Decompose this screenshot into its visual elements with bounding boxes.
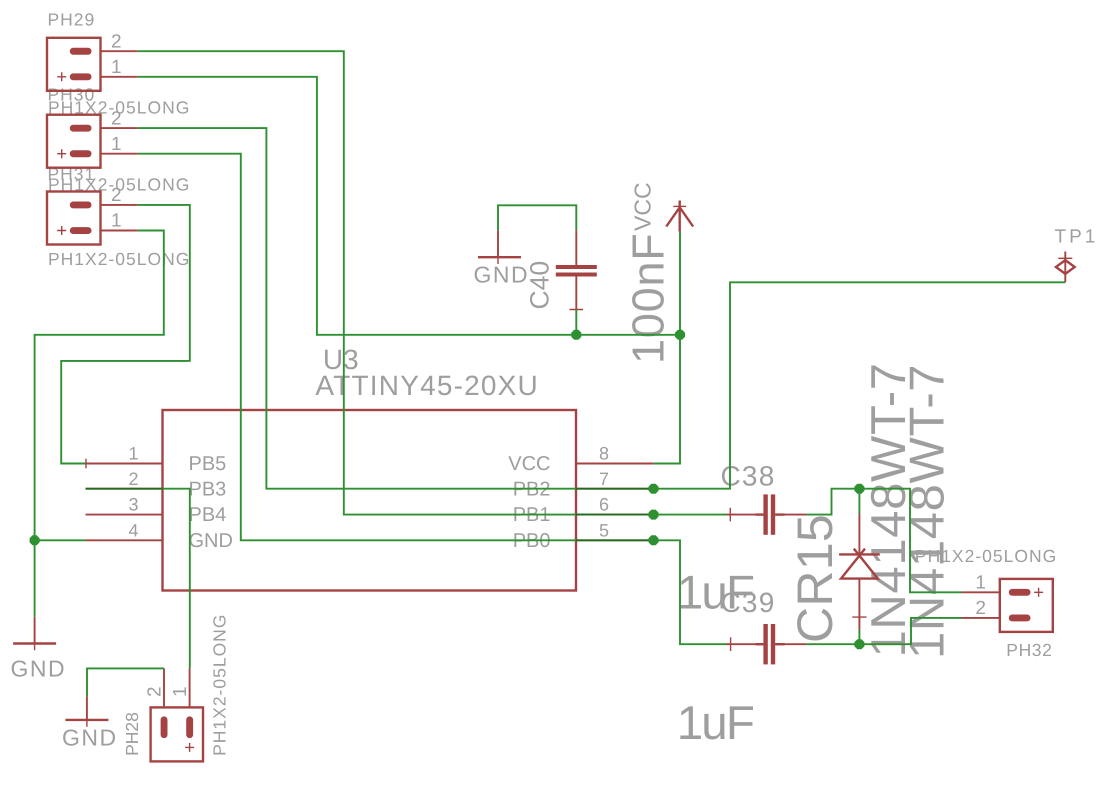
pin number 1 of PH30: [111, 134, 122, 155]
svg-text:C38: C38: [721, 460, 776, 491]
wire PB0 net to C39 left: [654, 540, 727, 644]
svg-text:1N4148WT-7: 1N4148WT-7: [901, 364, 955, 659]
capacitor C38: [724, 494, 807, 534]
svg-text:1: 1: [111, 211, 122, 232]
label PH28 vertical: [122, 712, 142, 756]
ground symbol GND near PH28: [65, 696, 108, 726]
junction dot U3 pin 7: [649, 484, 659, 494]
pin 7 stub of U3: [576, 488, 654, 490]
wire PB0 net from PH30 pin 1 down: [138, 154, 576, 541]
svg-text:GND: GND: [189, 530, 233, 552]
svg-text:2: 2: [128, 469, 138, 489]
wire VCC branch to C40 bottom: [575, 310, 577, 335]
value 1N4148WT-7 of CR15 first copy: [862, 362, 916, 657]
testpoint TP1: [1056, 252, 1075, 283]
wire diode top junction to PH32 pin 1: [859, 489, 961, 593]
wire VCC net from PH29 pin 1 to bus: [138, 77, 680, 335]
pin 1 stub of U3: [81, 459, 162, 469]
pin name VCC: [508, 453, 550, 475]
header PH31: [47, 192, 138, 245]
pin number 2 of PH32: [975, 598, 986, 619]
label GND supply near PH28: [62, 725, 118, 751]
svg-text:PH28: PH28: [122, 712, 142, 756]
svg-text:C39: C39: [721, 587, 776, 618]
label GND supply left rail: [11, 656, 67, 682]
value PH1X2-05LONG of PH31: [48, 249, 190, 269]
pin number 1 of PH28 vertical: [170, 686, 191, 697]
pin number 1 of PH31: [111, 211, 122, 232]
header PH30: [47, 115, 138, 168]
svg-text:PB4: PB4: [189, 504, 227, 526]
label GND supply near C40: [474, 262, 530, 288]
pin number 2 of PH29: [111, 31, 122, 52]
wire PB0 overlap on pin 5 stub: [576, 539, 654, 541]
junction dot U3 pin 5: [649, 535, 659, 545]
svg-text:2: 2: [111, 185, 122, 206]
svg-text:1: 1: [128, 444, 138, 464]
wire GND branch to U3 pin 4: [35, 539, 86, 541]
svg-text:1uF: 1uF: [677, 697, 754, 750]
header PH32: [962, 579, 1053, 632]
pin 6 stub of U3: [576, 514, 654, 516]
svg-text:6: 6: [599, 495, 609, 515]
svg-text:C40: C40: [525, 261, 555, 310]
header PH28: [151, 668, 203, 761]
pin 5 stub of U3: [576, 539, 654, 541]
pin number 4 of U3: [128, 520, 138, 540]
svg-text:PB3: PB3: [189, 479, 227, 501]
label PH29: [48, 10, 96, 30]
wire C38 right to diode top junction: [806, 489, 859, 515]
svg-text:2: 2: [975, 598, 986, 619]
pin number 2 of PH30: [111, 108, 122, 129]
wire VCC branch to arrow: [679, 232, 681, 335]
wire GND branch PH28 pin 2 to ground: [87, 668, 164, 696]
svg-text:PH1X2-05LONG: PH1X2-05LONG: [210, 614, 230, 756]
svg-text:1: 1: [111, 134, 122, 155]
pin 8 stub of U3: [576, 463, 654, 465]
ground symbol GND near C40: [478, 230, 521, 264]
name U3: [323, 344, 359, 375]
pin number 1 of PH29: [111, 57, 122, 78]
value PH1X2-05LONG of PH32: [915, 546, 1057, 566]
pin number 5 of U3: [599, 520, 609, 540]
pin number 8 of U3: [599, 444, 609, 464]
ground symbol GND left rail: [13, 617, 56, 650]
wire GND net from PH31 pin 1 to left rail: [35, 231, 164, 617]
wire PB2 net from PH30 pin 2 down: [138, 128, 576, 489]
wire PB2 net to TP1: [654, 282, 1066, 488]
wire diode bottom junction to PH32 pin 2: [859, 618, 961, 644]
svg-text:PH32: PH32: [1006, 640, 1052, 660]
pin number 6 of U3: [599, 495, 609, 515]
name C38: [721, 460, 776, 491]
value ATTINY45-20XU of U3: [315, 370, 539, 401]
name C39: [721, 587, 776, 618]
svg-text:2: 2: [144, 686, 165, 697]
pin name PB4: [189, 504, 227, 526]
diode CR15 1N4148WT-7: [839, 514, 880, 631]
label PH31: [48, 164, 96, 184]
pin number 7 of U3: [599, 469, 609, 489]
pin name PB0: [513, 530, 551, 552]
wire PB1 net to C38 left: [654, 514, 727, 516]
value VCC vertical label: [630, 182, 656, 231]
value PH1X2-05LONG of PH28 vertical: [210, 614, 230, 756]
svg-text:GND: GND: [11, 656, 67, 682]
label PH32: [1006, 640, 1052, 660]
wire PB2 overlap on pin 7 stub: [576, 488, 654, 490]
svg-text:4: 4: [128, 520, 138, 540]
pin number 2 of U3: [128, 469, 138, 489]
pin name PB2: [513, 479, 551, 501]
svg-text:2: 2: [111, 108, 122, 129]
junction dot diode top: [854, 484, 864, 494]
svg-text:100nF: 100nF: [623, 232, 674, 364]
wire PB1 overlap on pin 6 stub: [576, 514, 654, 516]
junction dot diode bottom: [854, 639, 864, 649]
pin number 2 of PH28 vertical: [144, 686, 165, 697]
svg-text:1: 1: [975, 573, 986, 594]
capacitor C40: [556, 230, 597, 316]
pin number 3 of U3: [128, 495, 138, 515]
wire PB3 net inside box to PH28 pin 1: [163, 489, 190, 669]
wire PB5 net from PH31 pin 2 to U3 pin 1: [61, 205, 190, 464]
pin number 1 of PH32: [975, 573, 986, 594]
svg-text:GND: GND: [62, 725, 118, 751]
wire PB1 net from PH29 pin 2 down: [138, 51, 576, 514]
pin 4 stub of U3: [86, 539, 163, 541]
wire C39 right to diode bottom junction: [806, 643, 859, 645]
svg-text:5: 5: [599, 520, 609, 540]
svg-text:GND: GND: [474, 262, 530, 288]
pin name GND: [189, 530, 233, 552]
svg-text:TP1: TP1: [1055, 227, 1099, 248]
svg-text:1: 1: [111, 57, 122, 78]
svg-text:ATTINY45-20XU: ATTINY45-20XU: [315, 370, 539, 401]
label TP1: [1055, 227, 1099, 248]
svg-text:PH1X2-05LONG: PH1X2-05LONG: [915, 546, 1057, 566]
svg-text:VCC: VCC: [508, 453, 550, 475]
pin number 2 of PH31: [111, 185, 122, 206]
pin 3 stub of U3: [86, 514, 163, 516]
wire C40 top to GND hook: [498, 205, 576, 230]
capacitor C39: [724, 624, 807, 664]
svg-text:PH1X2-05LONG: PH1X2-05LONG: [48, 249, 190, 269]
value PH1X2-05LONG of PH29: [48, 98, 190, 118]
wire diode cathode stub green: [858, 489, 860, 514]
junction dot VCC arrow column: [675, 330, 685, 340]
value 1uF of C38: [677, 567, 754, 620]
svg-text:2: 2: [111, 31, 122, 52]
value PH1X2-05LONG of PH30: [48, 175, 190, 195]
svg-text:1: 1: [170, 686, 191, 697]
value 100nF of C40 vertical: [623, 232, 674, 364]
svg-text:3: 3: [128, 495, 138, 515]
pin 2 stub of U3: [86, 488, 163, 490]
wire PB3 overlap on pin 2 stub: [86, 488, 163, 490]
name CR15 vertical: [787, 514, 843, 643]
wire VCC branch to U3 pin 8: [654, 335, 680, 464]
header PH29: [47, 38, 138, 91]
junction dot C40 on VCC bus: [571, 330, 581, 340]
label PH30: [48, 85, 96, 105]
pin name PB1: [513, 504, 551, 526]
value 1N4148WT-7 of CR15 second copy: [901, 364, 955, 659]
junction dot U3 pin 6: [649, 510, 659, 520]
junction dot GND rail: [30, 535, 40, 545]
wire diode anode stub green: [858, 630, 860, 644]
svg-text:7: 7: [599, 469, 609, 489]
pin name PB3: [189, 479, 227, 501]
svg-text:8: 8: [599, 444, 609, 464]
supply symbol VCC arrow: [666, 201, 693, 232]
svg-text:VCC: VCC: [630, 182, 656, 231]
IC U3 ATTINY45-20XU box: [163, 410, 577, 591]
svg-text:CR15: CR15: [787, 514, 843, 643]
value 1uF of C39: [677, 697, 754, 750]
name C40 vertical label: [525, 261, 555, 310]
svg-text:PH29: PH29: [48, 10, 96, 30]
svg-text:PB5: PB5: [189, 453, 227, 475]
pin name PB5: [189, 453, 227, 475]
pin number 1 of U3: [128, 444, 138, 464]
